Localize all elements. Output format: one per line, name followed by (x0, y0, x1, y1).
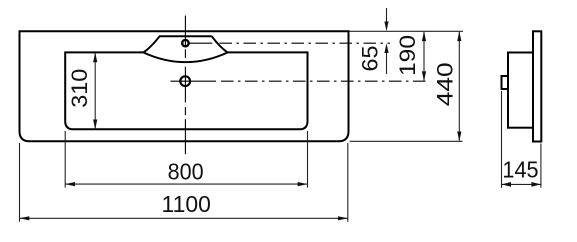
svg-text:190: 190 (395, 35, 420, 76)
svg-text:1100: 1100 (162, 191, 211, 217)
svg-text:65: 65 (358, 46, 383, 72)
svg-text:800: 800 (168, 159, 204, 185)
svg-text:145: 145 (502, 156, 538, 182)
svg-text:310: 310 (67, 69, 92, 108)
svg-text:440: 440 (432, 62, 457, 106)
